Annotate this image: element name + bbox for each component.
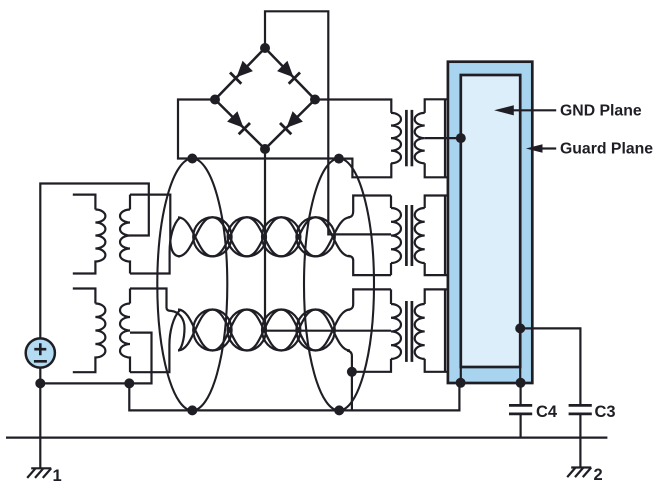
svg-text:C3: C3 [595, 403, 616, 421]
transformer T3 [391, 289, 448, 371]
node bridge bottom [260, 144, 270, 154]
transformer TXB left winding [73, 289, 106, 373]
wire lower TX center tap to node J1 [40, 333, 151, 384]
bottom rail wire [6, 437, 607, 439]
upper twisted pair entry (top wire) [130, 195, 180, 257]
node GND plane right [515, 323, 525, 333]
wire GND plane left to bottom node [460, 367, 462, 383]
lower twisted pair loop 1 [178, 310, 350, 351]
transformer T3 stems [390, 289, 392, 304]
diode bridge ring [215, 48, 315, 149]
diode D3 (bottom-left, points to bottom node) [227, 111, 250, 134]
upper twisted pair exit (top wire) [348, 196, 391, 218]
voltage source V1 [26, 338, 55, 367]
lower twisted pair loop 4 [228, 309, 266, 350]
wire T3 bottom hook [352, 359, 391, 411]
wire GND plane right to bottom node [519, 367, 521, 383]
diode D4 (bottom-right, points to bottom node) [280, 111, 303, 134]
node T3 bottom [347, 367, 357, 377]
node bridge left [210, 95, 220, 105]
GND plane box (inner) [461, 75, 520, 367]
upper twisted pair loop 4 [228, 217, 266, 256]
upper twisted pair entry (bottom wire) [130, 218, 180, 274]
label 2 [594, 466, 603, 484]
upper twisted pair loop 6 [296, 217, 334, 256]
svg-text:2: 2 [594, 466, 603, 484]
wire GND plane to C3 [520, 328, 580, 405]
wire T2 secondary bus [444, 196, 446, 276]
wire bridge-left to shield line [178, 100, 339, 159]
transformer T2 stems [390, 196, 392, 276]
lower twisted pair loop 3 [193, 310, 231, 351]
lower twisted pair exit (bottom wire) [347, 351, 352, 372]
cable shield ellipse (right) [304, 159, 374, 411]
node shield bottom right [334, 405, 344, 415]
node shield bottom left [187, 405, 197, 415]
transformer TXB right winding [120, 289, 130, 373]
label 1 [53, 467, 62, 485]
label C3 [595, 403, 616, 421]
lower twisted pair exit (top wire) [348, 289, 391, 309]
capacitor C4 [509, 383, 532, 438]
node guard bottom right [516, 378, 526, 388]
node guard bottom left [456, 378, 466, 388]
lower twisted pair loop 6 [296, 309, 334, 350]
node J1 [35, 378, 45, 388]
label Guard Plane [560, 141, 653, 158]
wire source-bottom to ground 1 [39, 367, 41, 469]
diode D1 (top-left, points to left node) [230, 61, 253, 84]
transformer T1 [391, 99, 448, 177]
node bridge top [260, 43, 270, 53]
transformer T2 [391, 196, 448, 276]
wire shield to T1 bottom [339, 159, 391, 178]
wire T1 center tap to GND plane [425, 137, 461, 139]
node shield left [187, 154, 197, 164]
wire source-top to upper TX center tap [40, 184, 149, 338]
upper twisted pair loop 3 [193, 217, 231, 256]
upper twisted pair exit (bottom wire) [348, 256, 391, 275]
wire T3 secondary bus [444, 289, 446, 371]
svg-text:1: 1 [53, 467, 62, 485]
diode D2 (top-right, points to right node) [277, 61, 300, 84]
lower twisted pair entry (top wire) [130, 289, 185, 351]
node bridge right [310, 95, 320, 105]
wire bridge-right to T1 [315, 100, 391, 113]
wire node J2 to guard box bottom [129, 383, 459, 411]
arrow Guard Plane [526, 144, 556, 153]
label GND Plane [560, 102, 642, 119]
node T1 tap at GND plane [456, 133, 466, 143]
transformer TXA right winding [120, 195, 130, 274]
capacitor C3 plates [569, 405, 592, 467]
cable shield ellipse (left) [157, 159, 227, 411]
svg-text:C4: C4 [536, 403, 558, 421]
transformer TXA left winding [73, 195, 106, 274]
upper twisted pair loop 2 [178, 217, 350, 256]
arrow GND Plane [494, 105, 556, 115]
lower twisted pair loop 5 [262, 310, 300, 351]
upper twisted pair loop 5 [262, 217, 300, 256]
svg-text:GND Plane: GND Plane [560, 102, 642, 119]
ground 1 [27, 468, 51, 478]
label C4 [536, 403, 558, 421]
node shield right [334, 154, 344, 164]
guard plane box (outer) [448, 62, 532, 383]
lower twisted pair loop 2 [178, 310, 350, 351]
node J2 [124, 378, 134, 388]
upper twisted pair loop 1 [178, 217, 350, 256]
wire bridge-bottom to T3 center tap [265, 149, 391, 331]
svg-text:Guard Plane: Guard Plane [560, 141, 653, 158]
wire T1 secondary bus [444, 99, 446, 177]
ground 2 [567, 468, 591, 478]
wire bridge-top to T2 center tap [265, 11, 391, 234]
lower twisted pair entry (bottom wire) [130, 310, 180, 372]
